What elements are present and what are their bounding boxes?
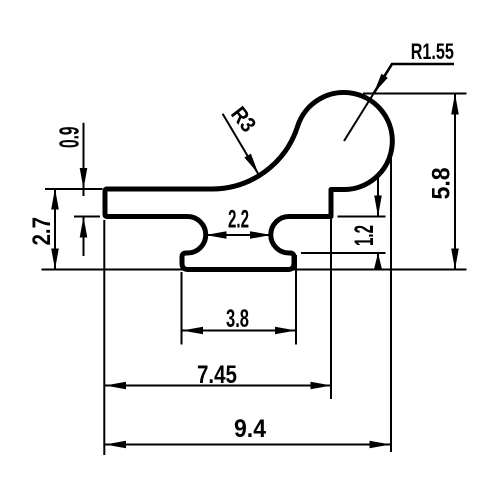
svg-text:3.8: 3.8	[226, 305, 249, 333]
baseline	[42, 269, 467, 271]
dim 2.2 line	[206, 234, 272, 236]
2.7 bottom (down)	[51, 249, 59, 270]
dim 1.2 lines	[377, 175, 379, 217]
5.8 bottom (down)	[451, 249, 459, 270]
tick flange top	[45, 188, 103, 190]
5.8 top (up)	[451, 94, 459, 115]
3.8 right	[275, 327, 296, 335]
svg-text:5.8: 5.8	[427, 167, 455, 199]
7.45 right	[311, 382, 332, 390]
2.2 right	[250, 231, 271, 239]
vert ext step (7.45)	[330, 217, 332, 400]
svg-text:7.45: 7.45	[197, 361, 237, 389]
R1.55 arrow (down-left)	[374, 74, 388, 94]
svg-text:9.4: 9.4	[234, 415, 266, 443]
tick foot top (1.2 bottom)	[301, 252, 386, 254]
svg-text:2.2: 2.2	[228, 206, 249, 234]
dim 2.7 line	[54, 189, 56, 270]
0.9 bottom (up)	[80, 217, 88, 238]
arrowheads	[51, 74, 459, 449]
1.2 top (down)	[374, 196, 382, 217]
tick flange bottom	[74, 216, 100, 218]
9.4 left	[105, 441, 126, 449]
tick step (1.2 top)	[338, 216, 386, 218]
tick bulb top	[363, 93, 467, 95]
dim 5.8 line	[454, 94, 456, 270]
svg-text:1.2: 1.2	[349, 225, 379, 246]
3.8 left	[182, 327, 203, 335]
svg-text:2.7: 2.7	[28, 217, 56, 246]
dim 3.8 line	[182, 330, 296, 332]
1.2 bottom (up)	[374, 253, 382, 269]
thin lines	[42, 94, 467, 456]
leader R1.55 bend	[374, 64, 454, 94]
svg-text:0.9: 0.9	[54, 127, 85, 149]
9.4 right	[370, 441, 391, 449]
leader R1.55 radius line	[344, 94, 374, 142]
R3 arrow (down-right)	[244, 154, 258, 174]
dim 0.9 lines	[83, 123, 85, 196]
dim 7.45 line	[105, 385, 332, 387]
dim 9.4 line	[105, 444, 391, 446]
leader R3	[223, 114, 258, 174]
7.45 left	[105, 382, 126, 390]
vert ext foot right (3.8)	[295, 255, 297, 345]
svg-text:R1.55: R1.55	[411, 39, 454, 64]
vert ext foot left (3.8)	[181, 272, 183, 345]
2.7 top (up)	[51, 189, 59, 210]
vert ext bulb right (9.4)	[390, 153, 392, 452]
seal profile outline	[105, 93, 392, 270]
2.2 left	[206, 231, 227, 239]
0.9 top (down)	[80, 168, 88, 189]
vert ext left	[103, 220, 105, 455]
